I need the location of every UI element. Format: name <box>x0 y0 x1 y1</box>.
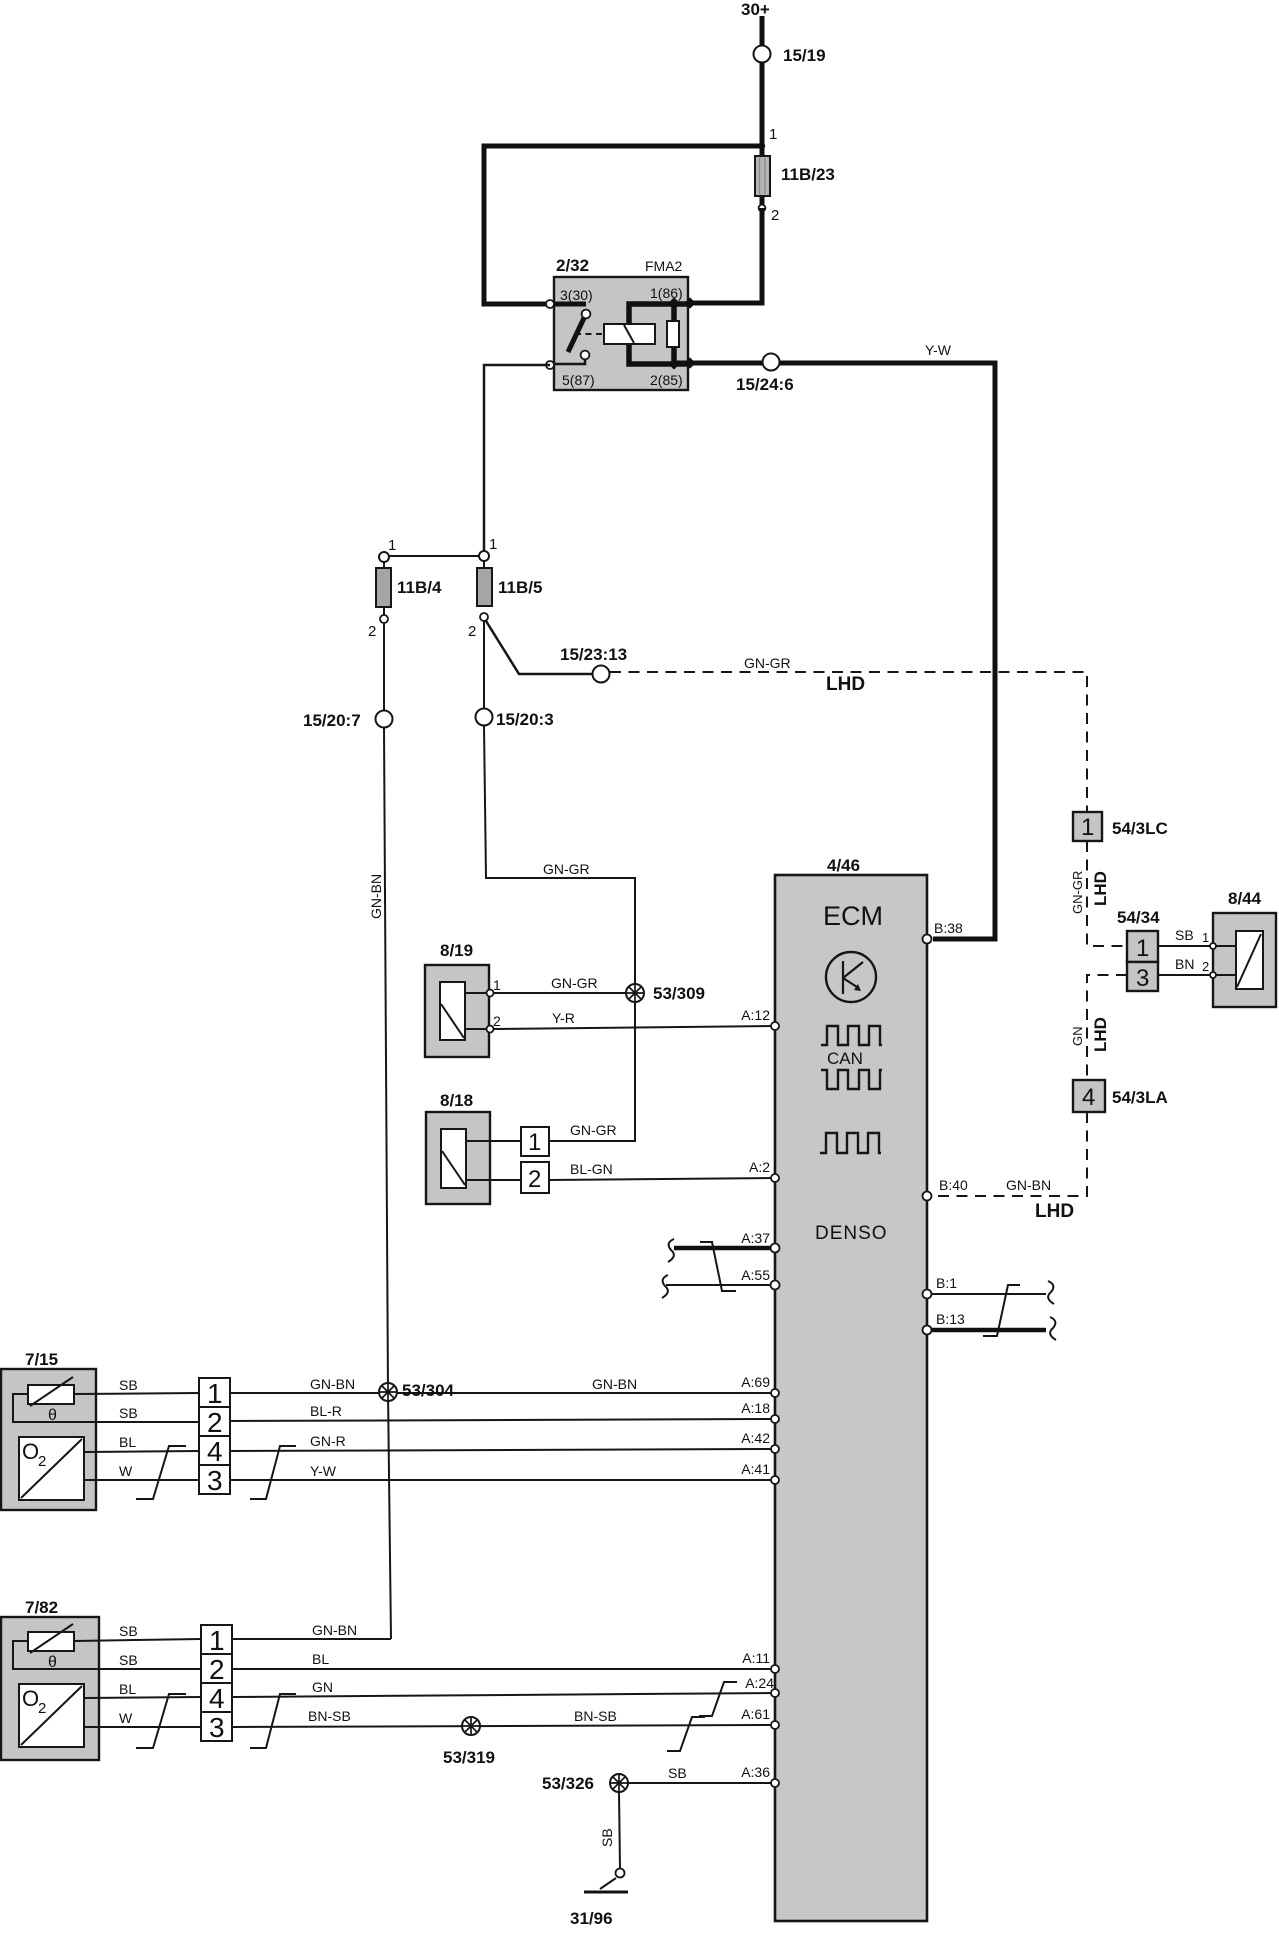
node 1 of fuse 11B/5 <box>479 536 497 561</box>
relay actuator dashed link <box>575 333 602 335</box>
svg-text:53/319: 53/319 <box>443 1748 495 1767</box>
pin B:1 <box>923 1275 958 1299</box>
svg-text:SB: SB <box>1175 927 1194 943</box>
svg-text:GN-BN: GN-BN <box>312 1622 357 1638</box>
svg-text:2: 2 <box>207 1407 223 1438</box>
wire Y-W to A:41 <box>230 1463 775 1480</box>
wire stub A:55 shielded <box>662 1275 775 1298</box>
wire between fuse tops <box>389 555 479 557</box>
wire Y-R from 8/19 pin 2 to ECM A:12 <box>493 1010 775 1029</box>
node 2 of fuse 11B/4 <box>368 615 388 640</box>
sensor 7/82 heated oxygen sensor rear <box>1 1598 201 1760</box>
svg-text:LHD: LHD <box>1091 871 1110 906</box>
svg-text:53/309: 53/309 <box>653 984 705 1003</box>
svg-text:1: 1 <box>209 1625 225 1656</box>
node 2 of fuse 11B/5 <box>468 613 488 640</box>
pin B:40 <box>923 1177 969 1201</box>
svg-text:2(85): 2(85) <box>650 372 683 388</box>
wire SB 54/34:1 to 8/44:1 <box>1158 927 1213 946</box>
pin A:2 <box>749 1159 779 1182</box>
shield crossover 7/82 left <box>136 1694 186 1748</box>
svg-text:SB: SB <box>119 1405 138 1421</box>
pin A:37 <box>741 1230 779 1253</box>
svg-text:GN-BN: GN-BN <box>310 1376 355 1392</box>
svg-text:LHD: LHD <box>826 674 865 695</box>
svg-text:BL: BL <box>119 1434 136 1450</box>
svg-text:A:37: A:37 <box>741 1230 770 1246</box>
svg-text:SB: SB <box>119 1623 138 1639</box>
relay coil loop 86-85 <box>629 304 690 364</box>
shield crossover 7/15 left <box>136 1446 186 1499</box>
svg-text:1(86): 1(86) <box>650 285 683 301</box>
fuse 11B/23 <box>755 156 835 196</box>
svg-text:4/46: 4/46 <box>827 856 860 875</box>
svg-text:GN-GR: GN-GR <box>543 861 590 877</box>
svg-text:A:41: A:41 <box>741 1461 770 1477</box>
svg-text:5(87): 5(87) <box>562 372 595 388</box>
connector 15/23:13 <box>560 645 627 683</box>
svg-text:A:24: A:24 <box>745 1675 774 1691</box>
connector 8/44 <box>1210 889 1276 1007</box>
svg-text:ECM: ECM <box>823 901 883 931</box>
pin A:61 <box>741 1706 779 1729</box>
svg-text:1: 1 <box>528 1129 541 1156</box>
svg-text:53/304: 53/304 <box>402 1381 455 1400</box>
svg-text:A:55: A:55 <box>741 1267 770 1283</box>
connector 15/20:3 <box>476 709 554 730</box>
svg-text:B:1: B:1 <box>936 1275 957 1291</box>
svg-text:A:12: A:12 <box>741 1007 770 1023</box>
pin A:24 <box>745 1675 779 1697</box>
wire BN 54/34:3 to 8/44:2 <box>1158 956 1213 975</box>
svg-text:8/18: 8/18 <box>440 1091 473 1110</box>
connector 15/24:6 <box>736 354 794 395</box>
wire fuse branch down <box>760 146 765 303</box>
wire GN-BN from 7/82 up to splice 53/304 <box>232 1622 391 1639</box>
svg-text:4: 4 <box>209 1683 225 1714</box>
svg-text:2: 2 <box>468 623 476 640</box>
svg-text:11B/4: 11B/4 <box>397 578 442 597</box>
svg-text:15/24:6: 15/24:6 <box>736 375 794 394</box>
svg-text:54/3LA: 54/3LA <box>1112 1088 1168 1107</box>
svg-text:54/34: 54/34 <box>1117 908 1160 927</box>
svg-text:3: 3 <box>207 1465 223 1496</box>
svg-text:A:36: A:36 <box>741 1764 770 1780</box>
splice 53/319 <box>443 1717 495 1767</box>
wire dashed down from 54/3LC to 54/34 pin 1 <box>1087 841 1127 946</box>
splice 53/304 <box>379 1381 455 1401</box>
svg-text:Y-W: Y-W <box>310 1463 337 1479</box>
wire GN-R to A:42 <box>230 1433 775 1451</box>
svg-text:GN-GR: GN-GR <box>1070 871 1085 914</box>
pin A:12 <box>741 1007 779 1030</box>
pin A:36 <box>741 1764 779 1787</box>
pin A:41 <box>741 1461 779 1484</box>
svg-text:1: 1 <box>489 536 497 553</box>
pin A:11 <box>742 1650 779 1673</box>
svg-text:B:38: B:38 <box>934 920 963 936</box>
terminal 4 of 7/82 <box>201 1683 232 1714</box>
terminal 1 of 8/18 <box>521 1127 549 1156</box>
svg-text:11B/5: 11B/5 <box>498 578 542 597</box>
svg-text:DENSO: DENSO <box>815 1223 888 1244</box>
wire GN to A:24 <box>232 1679 775 1697</box>
svg-text:1: 1 <box>493 977 501 993</box>
svg-text:BL: BL <box>312 1651 329 1667</box>
svg-text:8/19: 8/19 <box>440 941 473 960</box>
connector 15/20:7 <box>303 711 393 731</box>
svg-text:11B/23: 11B/23 <box>781 165 835 184</box>
wire GN-GR from 8/19 pin 1 to splice <box>493 975 630 993</box>
svg-text:SB: SB <box>668 1765 687 1781</box>
connector 8/18 <box>426 1091 521 1204</box>
svg-text:2: 2 <box>528 1166 541 1193</box>
svg-text:BL-R: BL-R <box>310 1403 342 1419</box>
pin A:69 <box>741 1374 779 1397</box>
svg-text:4: 4 <box>1082 1084 1095 1111</box>
svg-text:2/32: 2/32 <box>556 256 589 275</box>
terminal 4 of 7/15 <box>199 1436 230 1467</box>
svg-text:GN-BN: GN-BN <box>368 874 384 919</box>
shield crossover A:61 <box>667 1717 705 1751</box>
relay coil box <box>604 324 655 344</box>
svg-text:2: 2 <box>38 1453 46 1470</box>
svg-text:GN-BN: GN-BN <box>1006 1177 1051 1193</box>
svg-text:3: 3 <box>1136 965 1149 992</box>
ECM CAN symbol <box>821 1026 882 1089</box>
terminal 3 of 7/82 <box>201 1712 232 1743</box>
wire stub B:1 shielded <box>931 1281 1054 1304</box>
wire down to 15/20:3 <box>483 621 485 709</box>
svg-text:BL: BL <box>119 1681 136 1697</box>
svg-text:B:13: B:13 <box>936 1311 965 1327</box>
svg-text:2: 2 <box>493 1013 501 1029</box>
wire dashed GN-BN from 54/3LA to ECM B:40 <box>933 1112 1087 1196</box>
svg-text:BN-SB: BN-SB <box>574 1708 617 1724</box>
svg-text:A:18: A:18 <box>741 1400 770 1416</box>
wire BL to A:11 <box>232 1651 775 1669</box>
relay switch contact 30 side <box>550 304 590 364</box>
svg-text:A:11: A:11 <box>742 1650 770 1666</box>
wire from relay 5(87) down to fuse node <box>484 365 550 551</box>
splice 53/326 <box>542 1774 628 1793</box>
svg-text:15/23:13: 15/23:13 <box>560 645 627 664</box>
pin B:13 <box>923 1311 966 1335</box>
svg-text:CAN: CAN <box>827 1049 863 1068</box>
svg-text:GN-GR: GN-GR <box>744 655 791 671</box>
connector 54/3LC <box>1073 812 1168 841</box>
wire thick top horizontal to relay branch <box>484 146 762 304</box>
svg-text:1: 1 <box>1202 930 1209 945</box>
node 1 of fuse 11B/4 <box>379 537 396 562</box>
connector 8/19 <box>425 941 501 1057</box>
svg-text:SB: SB <box>119 1652 138 1668</box>
connector 15/19 <box>754 46 826 66</box>
sensor 7/15 heated oxygen sensor front <box>1 1350 199 1510</box>
ECU 4/46 ECM box <box>775 856 927 1921</box>
wire diagonal to 15/23:13 <box>486 621 593 674</box>
svg-text:15/19: 15/19 <box>783 46 826 65</box>
svg-text:2: 2 <box>771 207 779 224</box>
svg-text:31/96: 31/96 <box>570 1909 613 1928</box>
svg-text:3: 3 <box>209 1712 225 1743</box>
svg-text:GN: GN <box>312 1679 333 1695</box>
terminal 1 of 7/82 <box>201 1625 232 1656</box>
wire down to 15/20:7 <box>383 623 385 711</box>
svg-text:A:42: A:42 <box>741 1430 770 1446</box>
connector 54/3LA <box>1073 1080 1168 1112</box>
relay pin nodes <box>684 297 695 308</box>
svg-text:30+: 30+ <box>741 0 770 19</box>
svg-text:SB: SB <box>119 1377 138 1393</box>
svg-text:A:69: A:69 <box>741 1374 770 1390</box>
svg-text:Y-R: Y-R <box>552 1010 575 1026</box>
svg-text:BN: BN <box>1175 956 1194 972</box>
terminal 2 of 7/82 <box>201 1654 232 1685</box>
svg-text:1: 1 <box>388 537 396 554</box>
wire GN-BN long vertical to splice 53/304 <box>384 728 391 1639</box>
labels 7/15 wire colors <box>119 1377 138 1479</box>
svg-text:7/82: 7/82 <box>25 1598 58 1617</box>
svg-text:15/20:7: 15/20:7 <box>303 711 361 730</box>
wire SB down to ground <box>599 1792 620 1869</box>
wire dashed GN-GR LHD from 15/23:13 <box>610 672 1087 812</box>
svg-text:4: 4 <box>207 1436 223 1467</box>
svg-text:GN-GR: GN-GR <box>551 975 598 991</box>
svg-text:2: 2 <box>368 623 376 640</box>
svg-text:O: O <box>22 1686 39 1711</box>
ECM PWM symbol <box>820 1133 881 1153</box>
wire from fuse 11B/23 into relay pin 1(86) <box>690 208 762 303</box>
node pin 2 of fuse 11B/23 <box>759 205 780 224</box>
wire Y-W thick from relay 2(85) to ECM B:38 <box>676 363 995 939</box>
svg-text:15/20:3: 15/20:3 <box>496 710 554 729</box>
labels 7/82 wire colors <box>119 1623 138 1726</box>
svg-text:1: 1 <box>1136 935 1149 962</box>
svg-text:SB: SB <box>599 1828 615 1847</box>
wire GN-BN row to A:69 <box>230 1376 775 1393</box>
svg-text:FMA2: FMA2 <box>645 258 683 274</box>
shield crossover 7/15 right <box>250 1446 296 1499</box>
svg-text:3(30): 3(30) <box>560 287 593 303</box>
connector 54/34 <box>1117 908 1160 992</box>
svg-text:2: 2 <box>209 1654 225 1685</box>
svg-text:BN-SB: BN-SB <box>308 1708 351 1724</box>
terminal 1 of 7/15 <box>199 1378 230 1409</box>
svg-text:GN: GN <box>1070 1027 1085 1047</box>
pin B:38 <box>923 920 964 944</box>
svg-text:W: W <box>119 1463 133 1479</box>
shield crossover B:1/B:13 <box>983 1285 1020 1336</box>
svg-text:LHD: LHD <box>1035 1201 1074 1222</box>
wire BL-R to A:18 <box>230 1403 775 1421</box>
splice 53/309 <box>626 984 705 1003</box>
svg-text:53/326: 53/326 <box>542 1774 594 1793</box>
shield crossover 7/82 right <box>250 1694 296 1748</box>
pin A:42 <box>741 1430 779 1453</box>
fuse 11B/4 <box>376 562 442 615</box>
svg-text:7/15: 7/15 <box>25 1350 58 1369</box>
wire GN-GR from 15/20:3 down to 8/18 <box>484 726 635 1141</box>
wire 30+ feed down to junction 1 <box>760 16 765 146</box>
wire stub B:13 shielded <box>931 1317 1056 1340</box>
pin A:55 <box>741 1267 779 1290</box>
shield crossover A:24 <box>699 1682 737 1716</box>
relay pin circles left <box>546 300 554 308</box>
terminal 3 of 7/15 <box>199 1465 230 1496</box>
relay 2/32 FMA2 <box>554 256 688 390</box>
terminal 2 of 8/18 <box>521 1162 549 1193</box>
svg-text:B:40: B:40 <box>939 1177 968 1193</box>
svg-text:1: 1 <box>207 1378 223 1409</box>
svg-text:BL-GN: BL-GN <box>570 1161 613 1177</box>
terminal 2 of 7/15 <box>199 1407 230 1438</box>
shield crossover A:37/A:55 <box>700 1242 736 1291</box>
svg-text:GN-GR: GN-GR <box>570 1122 617 1138</box>
relay resistor <box>667 321 679 347</box>
svg-text:A:2: A:2 <box>749 1159 770 1175</box>
svg-text:8/44: 8/44 <box>1228 889 1262 908</box>
wire stub A:37 shielded <box>668 1239 775 1262</box>
svg-text:Y-W: Y-W <box>925 342 952 358</box>
fuse 11B/5 <box>477 561 542 606</box>
svg-text:1: 1 <box>769 126 777 143</box>
wire SB from splice 53/326 to A:36 <box>628 1765 775 1783</box>
pin A:18 <box>741 1400 779 1423</box>
svg-text:O: O <box>22 1439 39 1464</box>
node junction 1 of fuse 11B/23 <box>759 126 778 149</box>
svg-text:54/3LC: 54/3LC <box>1112 819 1168 838</box>
wire BL-GN from 8/18 terminal 2 to ECM A:2 <box>549 1161 775 1180</box>
svg-text:1: 1 <box>1081 814 1094 841</box>
svg-text:GN-R: GN-R <box>310 1433 346 1449</box>
ground 31/96 <box>570 1869 628 1929</box>
svg-text:2: 2 <box>38 1700 46 1717</box>
ECM clock symbol <box>826 952 876 1002</box>
svg-text:2: 2 <box>1202 959 1209 974</box>
wire BN-SB to A:61 <box>232 1708 775 1727</box>
svg-text:W: W <box>119 1710 133 1726</box>
svg-text:GN-BN: GN-BN <box>592 1376 637 1392</box>
wire dashed GN from 54/34 pin 3 down to 54/3LA <box>1087 975 1127 1080</box>
svg-text:LHD: LHD <box>1091 1017 1110 1052</box>
svg-text:A:61: A:61 <box>741 1706 770 1722</box>
